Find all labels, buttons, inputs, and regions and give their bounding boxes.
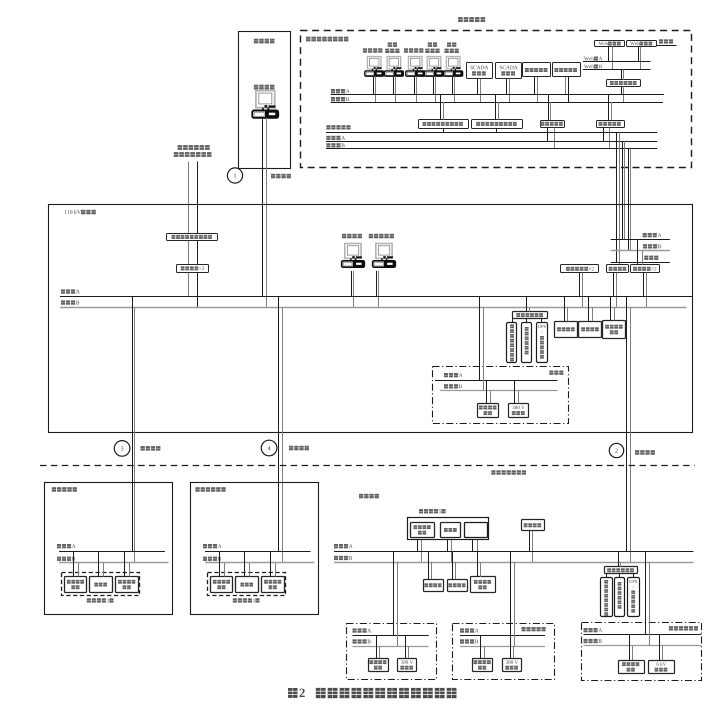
server 监控服务器×2 <box>561 265 599 273</box>
net 以太网A (码头) <box>57 544 61 548</box>
workstation icon 报表工作站 <box>446 57 460 69</box>
fiber pair to 总变电所 <box>626 297 628 552</box>
wire <box>526 319 528 322</box>
net 以太网B (总变) <box>334 556 338 560</box>
server SCADA服务器 #1 <box>467 63 493 79</box>
server Web防火墙 <box>627 41 657 47</box>
wires <box>529 531 531 552</box>
device 交换机 (码头) <box>90 577 113 593</box>
wire 办公网 <box>657 45 677 47</box>
workstation icon 维护工作站 <box>427 57 441 69</box>
wires Web网B to 下向隔离装置 <box>621 70 623 80</box>
wires 6kV备自投 to bay nets <box>659 635 661 660</box>
wires 五防工作站 to 站控层A/B <box>376 271 378 297</box>
server 前置服务器 #1 <box>541 121 565 128</box>
wires FS2 down <box>603 128 605 142</box>
net 间隔层B <box>353 639 357 643</box>
device 公用测控装置 (码头) <box>116 577 139 593</box>
wires FS1 down <box>547 128 549 142</box>
label 低压配电室 <box>522 627 526 631</box>
net 以太网A (总变) <box>334 544 338 548</box>
wires BX1 up <box>440 94 442 120</box>
wires 报表工作站 to 主干网A/B <box>452 76 454 94</box>
label 敷设光缆 (circle 4) <box>289 446 293 451</box>
wires 维护工作站 to 主干网A/B <box>433 76 435 94</box>
label 经调度数据网/至当地电网公司 <box>178 145 183 150</box>
wires <box>452 552 454 580</box>
wire <box>619 574 621 578</box>
terminal 其他串口设备 (总变, vertical) <box>615 578 625 617</box>
net 以太网B (码头) <box>57 557 61 561</box>
wires 工程师站 to 主干网A/B <box>414 76 416 94</box>
server Web服务器 <box>595 41 625 47</box>
device 保护测控装置 (高压室) <box>478 404 499 418</box>
label 敷设光缆 (circle 3) <box>141 446 145 451</box>
device 保护测控装置 <box>619 661 645 674</box>
device 交换机 (总变) <box>441 523 461 538</box>
device 保护装置 (station) <box>555 322 578 338</box>
device 380V备自投 <box>503 659 522 672</box>
wires 保护测控装置 to bay nets <box>629 635 631 660</box>
dashed bay box 低压配电室 <box>453 624 555 680</box>
net 间隔层B <box>460 639 464 643</box>
wire pair 前置网A down to station 前置网A <box>622 141 624 239</box>
device 保护测控装置 <box>369 659 389 672</box>
wires <box>244 552 246 577</box>
wires HIST1 <box>534 77 536 94</box>
wire pair dispatch-data down to 调度数据及二次安防 <box>188 162 190 234</box>
dashed cabinet 通信机柜1面 (储罐区) <box>208 573 286 596</box>
wires 保护测控装置 to bay nets <box>480 635 482 658</box>
workstation icon 保信工作站 <box>387 57 401 69</box>
device 保信子站 (station) <box>607 265 629 273</box>
device 下向隔离装置 <box>607 80 641 87</box>
wires 远动装置 down <box>643 273 645 297</box>
wires BX2 up <box>495 94 497 120</box>
server 历史服务器 #1 <box>523 63 551 77</box>
label 柴油发电机房 <box>669 626 673 630</box>
wire BX1 down <box>443 128 445 132</box>
terminal 其他串口设备 (vertical) <box>522 323 532 363</box>
label 办公网 <box>659 39 663 43</box>
device 保信子站 (总变) <box>522 520 545 531</box>
net 间隔层A <box>353 628 357 632</box>
wires 通信管理装置 up <box>526 297 528 312</box>
label 工作界面划分线 <box>491 470 495 474</box>
wires <box>447 540 449 552</box>
wire pair 远动装置×2 down to 站控层A/B <box>188 272 190 297</box>
net 站控层A <box>61 289 65 293</box>
wires 下向隔离装置 to 主干网A/B <box>621 86 623 94</box>
wires <box>73 552 75 577</box>
terminal UPS/直流屏等 (总变, vertical) <box>628 578 640 617</box>
net 保信层 <box>644 256 648 260</box>
device 其他网口设备 (station) <box>603 321 626 339</box>
workstation icon 工程师站 <box>345 244 361 259</box>
box 码头控制室 <box>45 483 173 615</box>
wires <box>417 540 419 552</box>
box 110kV开关站 <box>49 205 693 433</box>
terminal 电能质量采集终端 (vertical) <box>507 323 517 363</box>
device 公用测控装置 (储罐区) <box>262 577 285 593</box>
circle node 2 <box>609 443 623 457</box>
workstation icon 工程师站 <box>408 57 422 69</box>
wires FS2 up <box>608 94 610 120</box>
device 保护装置 (总变) <box>424 580 444 592</box>
wire <box>541 319 543 322</box>
net 间隔层A <box>460 628 464 632</box>
label 五防工作站 <box>369 234 373 239</box>
device 远动装置×2 (left) <box>177 265 209 273</box>
wire BX2 down <box>496 128 498 132</box>
label 中央控制室 <box>458 17 463 22</box>
wires <box>477 552 479 578</box>
device 其他网口设备 (总变) <box>471 577 496 593</box>
wires incoming <box>510 552 512 636</box>
device 通信管理装置 (码头) <box>65 577 87 593</box>
wires 远动装置 up to 前置网A/B <box>637 239 639 264</box>
caption 图2 全场自动化系统网络拓扑图 <box>288 688 298 698</box>
device 通信管理装置 (总变) <box>411 523 435 538</box>
cabinet box 通信机柜5面 <box>408 518 489 540</box>
wires <box>270 552 272 577</box>
wire <box>512 319 514 322</box>
dashed bay box 柴油发电机房 <box>582 623 702 681</box>
server 保信采集应用服务器 #1 <box>419 120 469 129</box>
wires 监控服务器 down <box>579 273 581 297</box>
net 前置网B <box>326 143 330 147</box>
wires <box>428 552 430 580</box>
net 以太网B (储罐区) <box>203 557 207 561</box>
label 储罐区变电所 <box>195 487 199 492</box>
wire <box>606 574 608 578</box>
wires incoming <box>393 552 395 636</box>
wires <box>98 552 100 577</box>
fiber pair to 码头控制室 <box>132 297 134 552</box>
server 保信采集应用服务器 #2 <box>472 120 523 129</box>
wire pair 保信前置网 down to 保信层/保信子站 <box>616 132 618 262</box>
dashed bay box (总变 bay A) <box>347 624 437 680</box>
net station 前置网B <box>643 244 647 248</box>
workstation icon 操作员站 (本期建设) <box>256 91 275 108</box>
label 通信机柜5面 <box>419 509 423 513</box>
dashed cabinet 通信机柜1面 (码头) <box>62 573 140 596</box>
device 通信管理装置 (储罐区) <box>211 577 233 593</box>
wires 工程师站 to 站控层A/B <box>351 271 353 297</box>
net 以太网A (储罐区) <box>203 544 207 548</box>
circle node 4 <box>261 440 277 456</box>
label 通信机柜1面 (储罐区) <box>233 598 237 602</box>
net Web网A <box>584 57 589 61</box>
wires <box>514 380 516 403</box>
device 380V备自投 (高压室) <box>509 404 529 418</box>
device 调度数据及二次安防 <box>167 234 218 241</box>
label 工程师站 <box>404 48 408 52</box>
terminal UPS/直流屏等 (vertical) <box>537 323 548 363</box>
label 操作员站 <box>363 48 367 52</box>
wires HIST2 <box>565 77 567 94</box>
server 前置服务器 #2 <box>597 121 625 128</box>
device 通信管理装置 (station) <box>513 312 548 319</box>
wires <box>610 297 612 320</box>
circle node 3 <box>114 441 130 457</box>
wires <box>588 297 590 321</box>
wire pair between 调度 box and 远动装置×2 <box>188 240 190 264</box>
wires Web防火墙 to Web网A/B <box>638 47 640 62</box>
wires 站控层 to 间隔层 (高压室) <box>479 297 481 380</box>
label 工程师站 <box>342 234 346 239</box>
dashed box 高压室 (high-voltage room) <box>433 367 569 424</box>
label 110kV开关站 <box>65 210 67 214</box>
box 本期建设 (current-phase construction) <box>239 32 291 169</box>
net 前置网A <box>326 136 330 140</box>
net 站控层B <box>61 300 65 304</box>
wires 保信子站 down <box>613 273 615 297</box>
wires 380V备自投 to bay nets <box>405 635 407 658</box>
wires <box>472 540 474 552</box>
net Web网B <box>584 65 589 69</box>
net 保信前置网 <box>326 125 330 129</box>
wires <box>564 297 566 321</box>
device 6kV备自投 <box>649 661 675 674</box>
wires FS1 up <box>548 94 550 120</box>
wires 保护测控装置 to bay nets <box>376 635 378 658</box>
wires incoming <box>645 552 647 636</box>
label 后期建设调度中心 <box>306 37 311 42</box>
circle node 1 <box>227 168 242 183</box>
fiber pair from 本期建设 workstation down to 站控层A/B <box>262 118 264 297</box>
device 测控装置 (station) <box>579 322 602 338</box>
wires 380V备自投 to bay nets <box>510 635 512 658</box>
label 操作员站 <box>254 85 258 90</box>
label 维护工作站 <box>428 42 432 46</box>
wires 操作员站 to 主干网A/B <box>373 76 375 94</box>
workstation icon 五防工作站 <box>376 244 392 259</box>
label 报表工作站 <box>447 42 451 46</box>
wire pair 前置网B down to station 前置网B <box>628 149 630 251</box>
net 主干网B <box>331 97 335 101</box>
label 高压室 <box>549 371 553 375</box>
device (blank box) <box>465 523 488 538</box>
server SCADA服务器 #2 <box>496 63 522 79</box>
label 保信工作站 <box>388 42 392 46</box>
server 历史服务器 #2 <box>553 63 581 77</box>
device 通信管理装置 (总变右) <box>605 567 638 574</box>
wires <box>486 380 488 403</box>
fiber pair to 储罐区变电所 <box>278 297 280 552</box>
label 通信机柜1面 <box>87 598 91 602</box>
net 间隔层B (高压室) <box>444 384 448 388</box>
terminal 电能质量采集终端 (总变, vertical) <box>601 578 613 617</box>
workstation icon 操作员站 <box>367 57 381 69</box>
net 间隔层B <box>584 639 588 643</box>
label 总变电所 <box>359 494 363 499</box>
wires Web服务器 to Web网A/B <box>608 47 610 62</box>
net 间隔层A (高压室) <box>444 373 448 377</box>
device 380V备自投 <box>398 659 417 672</box>
wires up <box>618 552 620 567</box>
net station 前置网A <box>643 233 647 237</box>
label 敷设光缆 (circle 2) <box>635 450 639 455</box>
wires <box>124 552 126 577</box>
device 远动装置×2 (right) <box>631 265 660 273</box>
wires SCADA2 <box>506 79 508 94</box>
box 储罐区变电所 <box>191 483 319 615</box>
label 码头控制室 <box>52 487 56 492</box>
device 交换机 (储罐区) <box>236 577 259 593</box>
net 间隔层A <box>584 628 588 632</box>
wires 保信工作站 to 主干网A/B <box>393 76 395 94</box>
wires <box>219 552 221 577</box>
label 敷设光缆 (circle 1) <box>271 174 275 179</box>
dashed work-interface division line 工作界面划分线 <box>40 465 695 467</box>
wire box-corner to circle 1 <box>238 167 240 169</box>
wire <box>633 574 635 578</box>
wires SCADA1 <box>477 79 479 94</box>
dashed box 中央控制室 <box>301 31 692 168</box>
net 主干网A <box>331 89 335 93</box>
device 保护测控装置 <box>473 659 493 672</box>
device 测控装置 (总变) <box>448 580 468 592</box>
